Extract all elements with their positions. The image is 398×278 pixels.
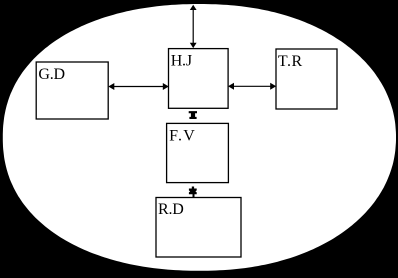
svg-text:G.D: G.D — [38, 66, 65, 83]
box F.V — [167, 123, 229, 182]
svg-text:H.J: H.J — [171, 52, 192, 69]
svg-text:F.V: F.V — [169, 127, 196, 144]
svg-text:T.R: T.R — [278, 53, 303, 70]
arrow H.J to T.R — [228, 83, 276, 90]
box R.D — [156, 198, 241, 258]
svg-text:R.D: R.D — [158, 201, 184, 218]
arrow G.D to H.J — [108, 83, 169, 90]
connector H.J to F.V (compressed double arrow) — [189, 111, 197, 119]
arrow top: ellipse top to H.J — [190, 5, 197, 48]
connector F.V to R.D (compressed double arrow) — [189, 187, 197, 198]
box H.J — [169, 49, 229, 109]
box G.D — [36, 62, 108, 119]
box T.R — [276, 49, 337, 109]
